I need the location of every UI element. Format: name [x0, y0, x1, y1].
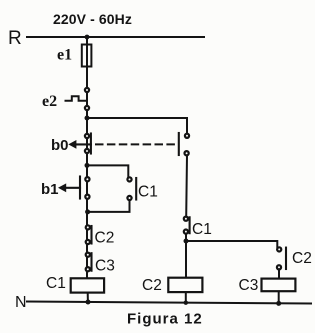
wire main vertical A — [86, 37, 88, 279]
fuse e1 — [82, 45, 92, 67]
svg-text:C3: C3 — [239, 277, 259, 294]
svg-text:R: R — [8, 28, 22, 49]
svg-text:C2: C2 — [292, 250, 312, 267]
wire right column lower — [278, 270, 280, 279]
svg-text:C1: C1 — [192, 221, 212, 238]
node dot top branch — [85, 116, 90, 121]
coil C3 — [262, 279, 296, 292]
pushbutton b0 arrow — [68, 140, 76, 149]
wire coil C2 to N — [185, 292, 187, 302]
contact C2 (main column) terminals — [86, 225, 90, 229]
svg-text:b1: b1 — [41, 181, 59, 198]
wire middle column — [185, 156, 188, 217]
pushbutton b1 terminals — [85, 177, 89, 181]
wire parallel branch top — [87, 165, 128, 176]
contact bar linked (middle column) — [178, 133, 180, 155]
pushbutton b1 contact bar — [79, 177, 81, 199]
pushbutton b1 arrow — [58, 183, 66, 192]
svg-text:e1: e1 — [57, 47, 72, 64]
svg-text:C1: C1 — [46, 275, 66, 292]
rail R — [27, 36, 204, 38]
contact C1 aux (parallel) terminals — [127, 177, 131, 181]
coil C2 — [168, 278, 202, 292]
contact C2 (right column) terminals — [277, 247, 281, 251]
contact C3 (main column) terminals — [86, 253, 90, 257]
wire coil C1 to N — [87, 293, 89, 302]
svg-text:C2: C2 — [142, 277, 162, 294]
node dot coil C1 at N — [86, 300, 91, 305]
svg-text:b0: b0 — [51, 137, 69, 154]
pushbutton b0 contact bar — [90, 134, 92, 154]
node dot coil C3 at N — [276, 301, 281, 306]
wire parallel branch bottom — [87, 201, 130, 212]
svg-text:220V - 60Hz: 220V - 60Hz — [53, 11, 132, 27]
contact C3 bar — [90, 253, 92, 271]
overload contact e2 actuator — [66, 96, 86, 101]
pushbutton b1 actuator — [62, 187, 80, 189]
contact C1 (middle) bar — [189, 217, 191, 233]
dashed mechanical link b0 — [96, 143, 176, 145]
svg-text:C3: C3 — [95, 258, 115, 275]
rail N — [27, 302, 311, 304]
svg-text:e2: e2 — [42, 93, 57, 110]
linked contact terminals — [185, 134, 189, 138]
contact C1 aux bar — [135, 178, 137, 200]
svg-text:Figura 12: Figura 12 — [127, 311, 203, 328]
contact C2 bar — [90, 226, 92, 244]
node dot rail R junction — [85, 35, 90, 40]
wire middle column feed (top branch horizontal) — [87, 118, 187, 133]
wire right column feed — [186, 241, 277, 247]
contact C2 (right) bar — [285, 248, 287, 269]
svg-text:C2: C2 — [95, 230, 115, 247]
contact C1 (middle column) terminals — [184, 217, 188, 221]
node dot parallel bottom — [85, 209, 90, 214]
node dot right column branch — [184, 239, 189, 244]
wire coil C3 to N — [278, 291, 280, 303]
coil C1 — [71, 278, 104, 292]
svg-text:C1: C1 — [138, 184, 158, 201]
pushbutton b0 terminals — [85, 134, 89, 138]
node dot parallel top — [85, 163, 90, 168]
overload contact e2 terminals — [85, 88, 89, 92]
svg-text:N: N — [15, 294, 27, 311]
node dot coil C2 at N — [184, 301, 188, 305]
pushbutton b0 actuator — [72, 143, 91, 145]
